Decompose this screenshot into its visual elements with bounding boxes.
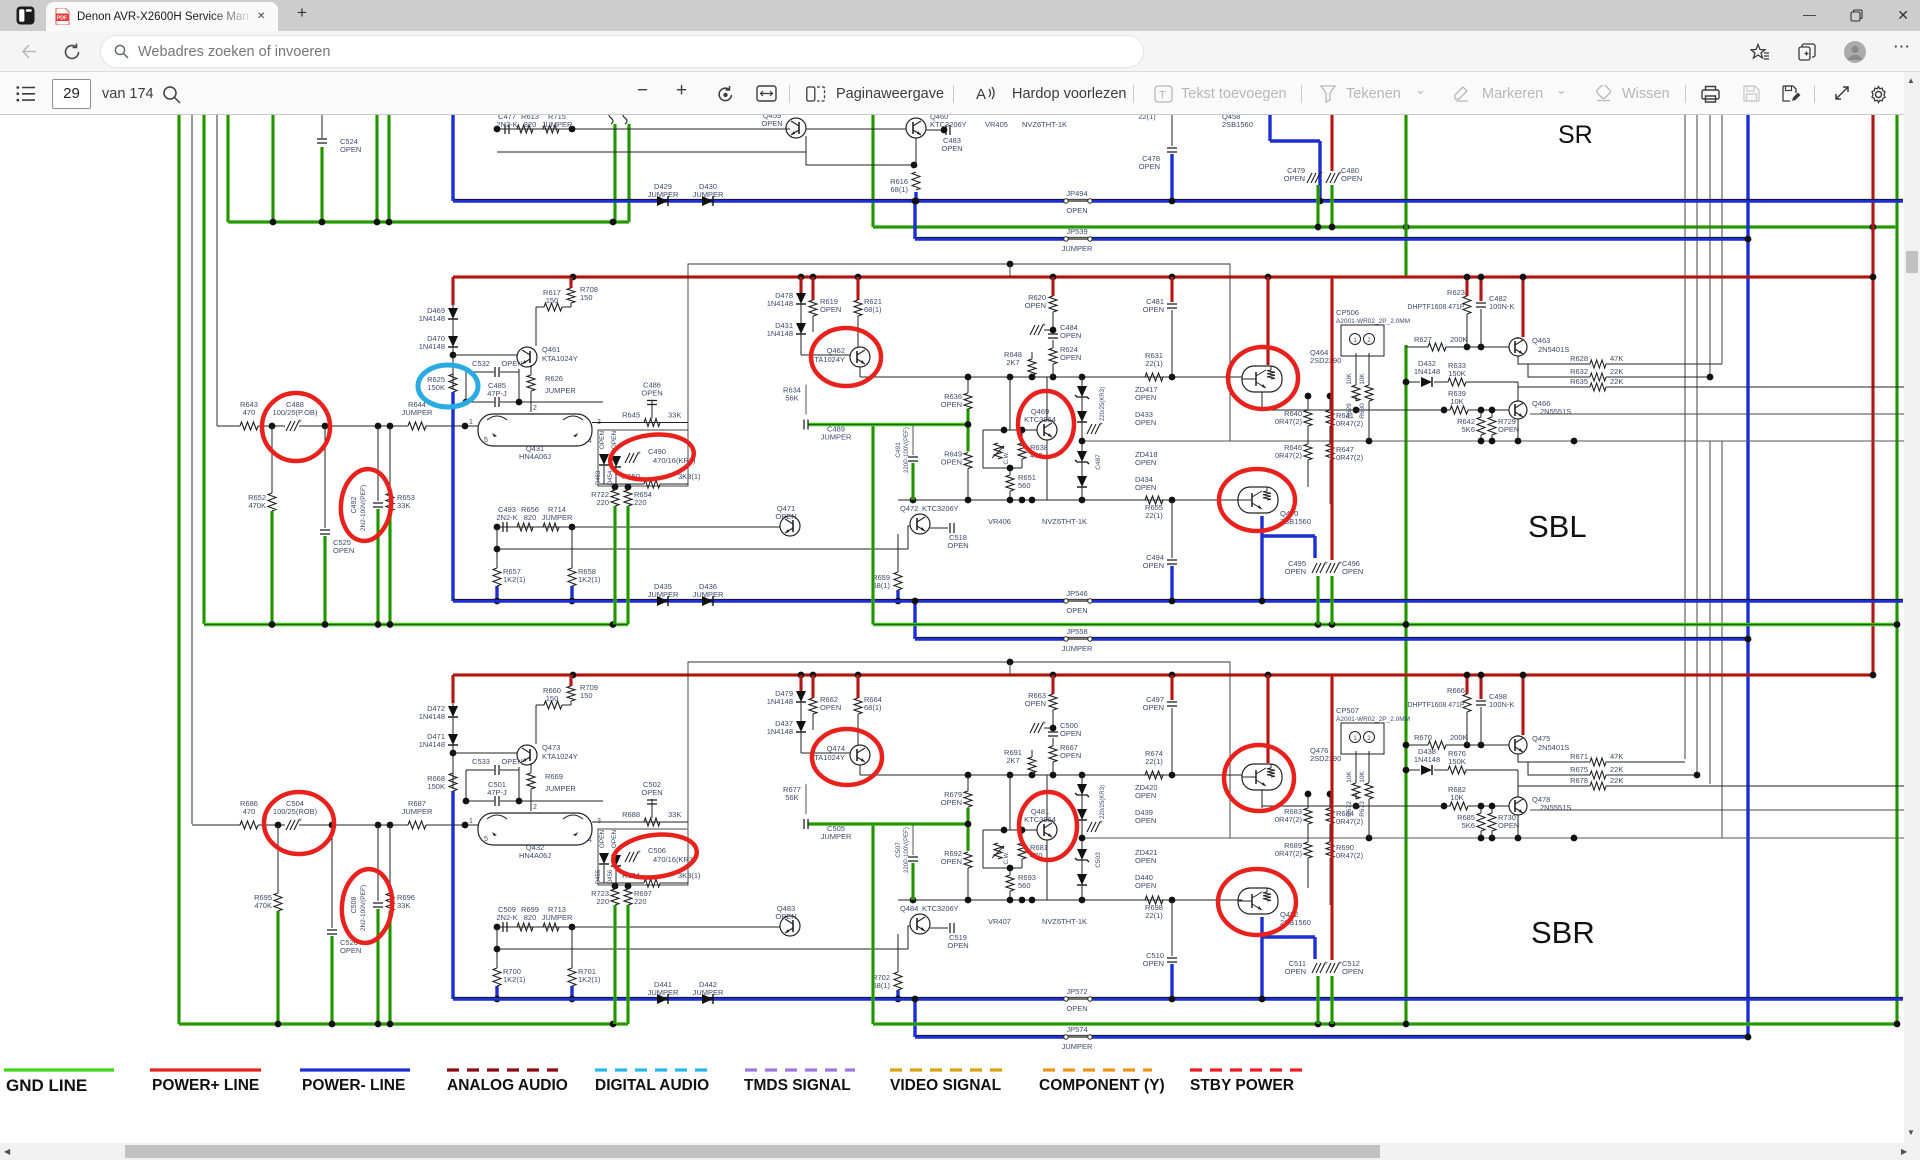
svg-text:5: 5 xyxy=(484,437,488,444)
resistor R697 220 xyxy=(627,883,629,889)
transistor Q483 xyxy=(572,926,780,928)
capacitor C532 xyxy=(465,372,467,402)
svg-text:OPEN: OPEN xyxy=(1341,174,1362,183)
svg-text:T: T xyxy=(1159,90,1166,102)
svg-text:0R47(2): 0R47(2) xyxy=(1336,419,1364,428)
capacitor C519 xyxy=(930,927,948,929)
POWER+ stub to Q475 xyxy=(1521,675,1524,735)
svg-text:22(1): 22(1) xyxy=(1145,757,1163,766)
svg-text:OPEN: OPEN xyxy=(775,912,796,921)
resistor R709 xyxy=(569,675,572,686)
wire Q481 base xyxy=(983,829,1037,831)
svg-text:OPEN: OPEN xyxy=(1143,305,1164,314)
svg-text:JUMPER: JUMPER xyxy=(1062,1042,1093,1051)
grey verticals lower right xyxy=(1709,441,1711,784)
svg-text:A2001-WR02_2P_2.0MM: A2001-WR02_2P_2.0MM xyxy=(1336,716,1410,723)
annotation circle Q482 xyxy=(1218,869,1296,935)
legend GND LINE xyxy=(4,1068,114,1071)
svg-text:OPEN: OPEN xyxy=(1135,791,1156,800)
svg-text:OPEN: OPEN xyxy=(941,144,962,153)
search icon xyxy=(162,85,181,104)
opto box xyxy=(598,829,688,885)
svg-text:+: + xyxy=(298,418,302,425)
capacitor C484 xyxy=(1048,333,1058,335)
back arrow (disabled) xyxy=(20,43,37,60)
resistor R626 xyxy=(530,365,532,375)
favorites star icon xyxy=(1750,43,1770,62)
svg-text:JUMPER: JUMPER xyxy=(542,913,573,922)
long wire SBR y810 xyxy=(1530,809,1906,811)
capacitor C479 xyxy=(1307,173,1312,183)
svg-text:R678: R678 xyxy=(1570,776,1588,785)
svg-text:SR: SR xyxy=(1558,121,1593,149)
GND stub verticals with cut marks xyxy=(613,124,616,222)
wire row B xyxy=(1528,364,1590,377)
POWER- bus JP494 xyxy=(453,199,1066,202)
wire base row to Q461 xyxy=(453,354,517,356)
svg-text:220/25(KR3): 220/25(KR3) xyxy=(1100,387,1106,421)
capacitor C485 xyxy=(466,401,494,403)
svg-text:2: 2 xyxy=(533,804,537,811)
page number box xyxy=(52,79,91,109)
resistor R681 xyxy=(1018,843,1026,859)
capacitor C486 xyxy=(651,400,653,419)
svg-text:2: 2 xyxy=(533,405,537,412)
svg-text:R626: R626 xyxy=(545,374,563,383)
svg-text:A: A xyxy=(976,86,986,103)
resistor R642 and pair verticals xyxy=(1480,410,1482,417)
svg-text:47K: 47K xyxy=(1610,354,1623,363)
resistor R692 xyxy=(964,852,972,868)
resistor R653 33K xyxy=(389,426,391,493)
capacitor C490 xyxy=(625,453,630,463)
svg-text:33K: 33K xyxy=(668,810,681,819)
jumper JP539 break xyxy=(1064,237,1068,241)
svg-text:R670: R670 xyxy=(1414,733,1432,742)
svg-text:HN4A06J: HN4A06J xyxy=(519,851,551,860)
erase icon xyxy=(1594,85,1613,102)
svg-text:KTC3964: KTC3964 xyxy=(1024,815,1056,824)
svg-text:100/25(P.OB): 100/25(P.OB) xyxy=(273,408,318,417)
svg-text:68(1): 68(1) xyxy=(890,185,908,194)
GND stubs under C479 C480 xyxy=(1316,185,1319,222)
svg-text:200K: 200K xyxy=(1450,733,1468,742)
legend POWER- LINE xyxy=(300,1068,410,1071)
POWER+ corner to diodes xyxy=(451,675,454,703)
svg-text:1N4148: 1N4148 xyxy=(1414,755,1440,764)
svg-text:10K: 10K xyxy=(1450,793,1463,802)
diode column xyxy=(1081,377,1083,386)
GND vertical x1406 upper xyxy=(1404,115,1407,277)
resistor R631 22(1) xyxy=(1145,373,1163,381)
GND vertical right edge xyxy=(1895,115,1898,1024)
svg-text:+: + xyxy=(298,817,302,824)
svg-text:VR406: VR406 xyxy=(988,517,1011,526)
svg-text:0R47(2): 0R47(2) xyxy=(1336,453,1364,462)
resistor R621 xyxy=(856,277,859,300)
svg-text:220: 220 xyxy=(596,897,609,906)
svg-text:2N2-K: 2N2-K xyxy=(496,120,517,129)
resistor R617 xyxy=(544,303,562,311)
svg-text:OPEN: OPEN xyxy=(947,941,968,950)
svg-text:OPEN: OPEN xyxy=(501,359,522,368)
transistor Q473 xyxy=(517,745,537,765)
capacitor C497 xyxy=(1170,675,1173,700)
resistors R629 R630 10K xyxy=(1355,353,1357,385)
power transistor Q464 xyxy=(1242,366,1282,392)
pot CW xyxy=(994,843,1002,859)
diode D472 xyxy=(452,703,454,706)
svg-text:KTC3206Y: KTC3206Y xyxy=(922,904,959,913)
transistor Q478 xyxy=(1509,797,1527,815)
zoom in plus xyxy=(676,80,687,102)
svg-text:150K: 150K xyxy=(1448,369,1466,378)
diodes D479 D437 xyxy=(799,675,802,691)
diode D438 row C xyxy=(1406,769,1420,771)
resistor R702 xyxy=(897,934,899,972)
GND drop x968 xyxy=(966,409,969,452)
svg-text:OPEN: OPEN xyxy=(340,145,361,154)
input wire SBR xyxy=(192,824,240,826)
svg-text:1N4148: 1N4148 xyxy=(419,342,445,351)
print icon xyxy=(1701,85,1720,103)
svg-text:D463: D463 xyxy=(596,470,602,485)
svg-text:C.W.: C.W. xyxy=(1004,851,1010,864)
svg-text:220: 220 xyxy=(634,498,647,507)
svg-text:OPEN: OPEN xyxy=(501,757,522,766)
svg-text:47P-J: 47P-J xyxy=(487,788,507,797)
svg-text:10K: 10K xyxy=(1450,397,1463,406)
POWER+ stub to caps xyxy=(1330,675,1333,960)
legend TMDS SIGNAL xyxy=(745,1068,855,1071)
diode D429 xyxy=(657,196,668,206)
svg-text:470K: 470K xyxy=(254,901,272,910)
power transistor Q476 xyxy=(1242,764,1282,790)
svg-text:KTA1024Y: KTA1024Y xyxy=(809,753,845,762)
capacitor C500 xyxy=(1048,731,1058,733)
long mid wire SBL xyxy=(860,376,1242,378)
svg-text:Q474: Q474 xyxy=(827,744,845,753)
svg-text:JP572: JP572 xyxy=(1066,987,1087,996)
svg-text:0R47(2): 0R47(2) xyxy=(1275,815,1303,824)
svg-text:OPEN: OPEN xyxy=(1060,353,1081,362)
svg-text:KTA1024Y: KTA1024Y xyxy=(809,355,845,364)
resistors R672 R673 10K xyxy=(1355,751,1357,783)
connector CP506 xyxy=(1341,325,1384,356)
svg-text:D455: D455 xyxy=(596,869,602,884)
svg-text:HN4A06J: HN4A06J xyxy=(519,452,551,461)
capacitor C504 xyxy=(286,820,291,830)
svg-text:C533: C533 xyxy=(472,757,490,766)
svg-text:47P-J: 47P-J xyxy=(487,389,507,398)
svg-text:150: 150 xyxy=(546,296,559,305)
legend VIDEO SIGNAL xyxy=(890,1068,1005,1071)
svg-text:C487: C487 xyxy=(1095,454,1102,470)
svg-text:JP494: JP494 xyxy=(1066,189,1087,198)
svg-text:OPEN: OPEN xyxy=(1285,967,1306,976)
svg-text:DHPTF1608 471P: DHPTF1608 471P xyxy=(1407,702,1465,709)
svg-text:68(1): 68(1) xyxy=(872,581,890,590)
svg-text:68(1): 68(1) xyxy=(864,703,882,712)
resistor R708 xyxy=(569,277,572,288)
capacitor C507 xyxy=(912,824,914,855)
diode D470 xyxy=(452,319,454,336)
svg-text:10K: 10K xyxy=(1359,771,1366,783)
svg-text:2SD2390: 2SD2390 xyxy=(1310,754,1341,763)
svg-text:R627: R627 xyxy=(1414,335,1432,344)
wire Q475 emitter row A xyxy=(1518,754,1590,762)
GND verticals C492/R653 top xyxy=(375,115,378,222)
GND drop x968 xyxy=(966,808,969,851)
svg-text:R645: R645 xyxy=(622,411,640,420)
svg-text:470: 470 xyxy=(243,408,256,417)
zoom out minus xyxy=(637,80,648,102)
annotation circle C488 xyxy=(262,393,330,461)
resistor R715 xyxy=(543,125,559,133)
resistor R652 470K xyxy=(271,426,273,493)
svg-text:OPEN: OPEN xyxy=(1143,959,1164,968)
svg-text:33K: 33K xyxy=(668,411,681,420)
diode D471 xyxy=(452,717,454,734)
resistor R698 22(1) xyxy=(1145,896,1163,904)
svg-text:+: + xyxy=(1099,819,1103,826)
resistor R657 xyxy=(496,527,498,568)
svg-text:R671: R671 xyxy=(1570,752,1588,761)
reload icon xyxy=(63,43,81,61)
resistor R682 base row xyxy=(1262,805,1450,807)
resistor R670 200K wire xyxy=(1406,744,1428,746)
wire pill to frame xyxy=(592,422,688,424)
annotation circle Q476 xyxy=(1224,745,1294,811)
svg-text:560: 560 xyxy=(1018,481,1031,490)
input wire SBL xyxy=(217,425,240,427)
POWER- link x915 xyxy=(913,201,916,239)
svg-text:R630: R630 xyxy=(1359,403,1366,419)
resistor R648 2K7 xyxy=(1028,359,1036,375)
GND bus SBR left xyxy=(179,1022,628,1025)
ecap mid xyxy=(1087,424,1092,434)
svg-text:OPEN: OPEN xyxy=(641,389,662,398)
svg-text:22K: 22K xyxy=(1610,377,1623,386)
capacitors C495 C496 xyxy=(1312,563,1317,573)
resistor R660 xyxy=(544,701,562,709)
svg-text:0R47(2): 0R47(2) xyxy=(1336,817,1364,826)
capacitor C482 xyxy=(1479,277,1482,301)
svg-text:DIGITAL AUDIO: DIGITAL AUDIO xyxy=(595,1077,709,1094)
svg-text:10K: 10K xyxy=(1346,373,1353,385)
svg-text:OPEN: OPEN xyxy=(775,512,796,521)
svg-text:22(1): 22(1) xyxy=(1145,359,1163,368)
capacitor C498 xyxy=(1479,675,1482,699)
svg-text:C503: C503 xyxy=(1095,852,1102,868)
capacitor C510 xyxy=(1171,900,1173,956)
connector CP507 xyxy=(1341,723,1384,754)
svg-text:Q472: Q472 xyxy=(900,504,918,513)
resistor R663 xyxy=(1051,675,1054,694)
svg-text:5: 5 xyxy=(484,836,488,843)
diode D430 xyxy=(702,196,713,206)
profile avatar xyxy=(1843,40,1867,64)
resistor R624 xyxy=(1052,340,1054,348)
svg-text:JUMPER: JUMPER xyxy=(402,408,433,417)
svg-text:JUMPER: JUMPER xyxy=(545,784,576,793)
svg-text:JUMPER: JUMPER xyxy=(402,807,433,816)
resistor R669 xyxy=(530,763,532,773)
window controls xyxy=(1803,7,1816,22)
svg-text:1N4148: 1N4148 xyxy=(419,314,445,323)
workspaces icon xyxy=(16,6,35,25)
annotation circle C492 xyxy=(337,467,394,544)
annotation circle Q469 xyxy=(1018,391,1074,457)
power transistor Q482 xyxy=(1238,888,1278,914)
svg-text:+: + xyxy=(637,849,641,856)
svg-text:JUMPER: JUMPER xyxy=(1062,644,1093,653)
capacitor C480 xyxy=(1326,173,1331,183)
svg-text:1: 1 xyxy=(469,419,473,426)
svg-text:C532: C532 xyxy=(472,359,490,368)
resistor R613 xyxy=(517,125,533,133)
svg-text:R628: R628 xyxy=(1570,354,1588,363)
capacitor C481 xyxy=(1170,277,1173,302)
svg-text:KTA1024Y: KTA1024Y xyxy=(542,354,578,363)
svg-text:OPEN: OPEN xyxy=(947,541,968,550)
hub wire xyxy=(898,899,1242,901)
svg-text:OPEN: OPEN xyxy=(1060,729,1081,738)
svg-text:JUMPER: JUMPER xyxy=(648,590,679,599)
svg-text:OPEN: OPEN xyxy=(941,400,962,409)
svg-text:JP574: JP574 xyxy=(1066,1025,1087,1034)
resistor R685 and pair verticals xyxy=(1480,806,1482,813)
opto box xyxy=(598,430,688,486)
resistor R649 xyxy=(964,453,972,469)
GND junction at R670 row xyxy=(1403,742,1410,749)
trimmer CT xyxy=(1030,723,1035,733)
svg-text:820: 820 xyxy=(524,913,537,922)
pot CW xyxy=(994,443,1002,459)
svg-text:OPEN: OPEN xyxy=(1060,331,1081,340)
svg-text:100N-K: 100N-K xyxy=(1489,302,1514,311)
svg-text:OPEN: OPEN xyxy=(1135,393,1156,402)
POWER- from Q470 xyxy=(1260,516,1263,601)
svg-text:56K: 56K xyxy=(785,793,798,802)
svg-text:1N4148: 1N4148 xyxy=(1414,367,1440,376)
svg-text:KTA1024Y: KTA1024Y xyxy=(542,752,578,761)
svg-text:OPEN: OPEN xyxy=(1139,162,1160,171)
svg-text:GND LINE: GND LINE xyxy=(6,1076,87,1095)
svg-text:OPEN: OPEN xyxy=(1066,206,1087,215)
svg-text:R672: R672 xyxy=(1346,801,1353,817)
POWER+ bus SBR xyxy=(453,673,1873,676)
svg-text:2N2-K: 2N2-K xyxy=(496,913,517,922)
annotation circle Q474 xyxy=(812,729,882,785)
svg-text:1K2(1): 1K2(1) xyxy=(578,975,601,984)
svg-text:JP558: JP558 xyxy=(1066,627,1087,636)
svg-text:220P-100V(PEF): 220P-100V(PEF) xyxy=(904,827,910,873)
svg-text:5K6: 5K6 xyxy=(1462,821,1475,830)
svg-text:56K: 56K xyxy=(785,394,798,403)
legend ANALOG AUDIO xyxy=(447,1068,558,1071)
svg-text:TMDS SIGNAL: TMDS SIGNAL xyxy=(744,1077,851,1094)
svg-text:1N4148: 1N4148 xyxy=(419,740,445,749)
svg-text:OPEN: OPEN xyxy=(641,788,662,797)
POWER- drop to lower bus xyxy=(451,392,454,601)
resistor R679 xyxy=(967,775,969,791)
svg-text:JP539: JP539 xyxy=(1066,227,1087,236)
capacitor C491 xyxy=(912,425,914,456)
GND bus SR left segment xyxy=(228,220,629,223)
address pill xyxy=(101,36,1143,67)
svg-text:Q484: Q484 xyxy=(900,904,918,913)
resistors R683 R684 xyxy=(1304,808,1312,824)
svg-text:STBY POWER: STBY POWER xyxy=(1190,1077,1294,1094)
transistor Q461 xyxy=(517,347,537,367)
diode column xyxy=(1081,775,1083,784)
svg-text:1N4148: 1N4148 xyxy=(767,697,793,706)
wire row B xyxy=(1528,762,1590,775)
resistor R644 xyxy=(408,422,426,430)
ecap mid xyxy=(1087,822,1092,832)
resistor R639 base row xyxy=(1262,409,1450,411)
annotation circle C506 xyxy=(611,830,699,882)
transistor Q484 xyxy=(908,926,910,949)
svg-text:2N5551S: 2N5551S xyxy=(1540,407,1571,416)
svg-text:OPEN: OPEN xyxy=(1135,856,1156,865)
GND bus SBL left xyxy=(204,623,628,626)
svg-text:2N2-K: 2N2-K xyxy=(496,513,517,522)
resistor R627 200K wire xyxy=(1406,346,1428,348)
wire SR row1 xyxy=(497,128,790,130)
capacitor C518 xyxy=(930,527,948,529)
svg-text:+: + xyxy=(1042,322,1046,329)
diode D441 xyxy=(657,994,668,1004)
svg-text:2N5401S: 2N5401S xyxy=(1538,743,1569,752)
svg-text:220/25(KR3): 220/25(KR3) xyxy=(1100,785,1106,819)
resistor R696 33K xyxy=(389,825,391,893)
wire Q462 row xyxy=(801,354,850,356)
capacitor C505 xyxy=(803,819,805,829)
long wire y410 left part to Q464 xyxy=(1262,409,1450,411)
capacitor C488 xyxy=(286,421,291,431)
GND stubs below caps xyxy=(1316,576,1319,625)
frame SBL xyxy=(688,264,1230,441)
GND bus SBL right xyxy=(873,623,1897,626)
wire hub row2 xyxy=(497,548,908,550)
wire Q462 row xyxy=(801,752,850,754)
row C493 R699 R713 xyxy=(497,526,572,528)
POWER- drop to lower bus xyxy=(451,791,454,999)
svg-text:R688: R688 xyxy=(622,810,640,819)
svg-text:D456: D456 xyxy=(608,869,614,884)
svg-text:1K2(1): 1K2(1) xyxy=(578,575,601,584)
svg-text:100N-K: 100N-K xyxy=(1489,700,1514,709)
svg-text:+: + xyxy=(637,450,641,457)
svg-text:NVZ6THT-1K: NVZ6THT-1K xyxy=(1042,517,1087,526)
svg-text:OPEN: OPEN xyxy=(941,857,962,866)
svg-text:3K3(1): 3K3(1) xyxy=(678,472,701,481)
POWER- vertical x1748 xyxy=(1746,115,1749,1037)
diode D469 xyxy=(452,305,454,308)
svg-text:10K: 10K xyxy=(1346,771,1353,783)
svg-text:POWER- LINE: POWER- LINE xyxy=(302,1077,405,1094)
trimmer CT xyxy=(1030,325,1035,335)
diode D455 xyxy=(599,853,609,864)
svg-text:OPEN: OPEN xyxy=(1498,821,1519,830)
wire hub row2 xyxy=(497,948,908,950)
svg-text:150: 150 xyxy=(546,694,559,703)
settings gear icon xyxy=(1869,85,1888,104)
annotation circle R625 blue xyxy=(418,365,478,407)
resistor R625 xyxy=(449,374,457,392)
